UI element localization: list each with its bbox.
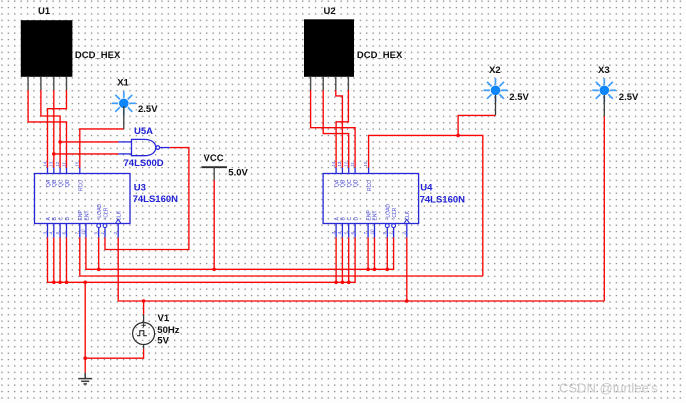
- wire U3 C drop: [59, 237, 61, 282]
- svg-text:11: 11: [61, 162, 66, 167]
- display U2 pin stubs: [311, 77, 349, 90]
- U5A input stub A: [118, 141, 131, 143]
- wire U2 pin3 to U4 QB: [336, 90, 343, 168]
- svg-text:CSDN @turtlee's: CSDN @turtlee's: [559, 381, 658, 396]
- wire U2 pin2 to U4 QC: [323, 90, 349, 168]
- wire lamp X2 to RCO net: [458, 115, 495, 135]
- wire U3 ~LOAD drop to VCC net: [98, 237, 100, 269]
- junction U3 ~LOAD on VCC net: [97, 268, 101, 272]
- wire U4 CLK drop: [406, 237, 408, 301]
- U4 top pin stubs: [336, 168, 369, 174]
- svg-text:X1: X1: [117, 77, 129, 88]
- wire NAND input B from QB column: [54, 153, 119, 155]
- lamp X1: [112, 91, 136, 115]
- wire ground lead red: [84, 358, 86, 373]
- svg-text:X3: X3: [598, 65, 610, 76]
- svg-text:50Hz: 50Hz: [157, 325, 179, 336]
- U3 ~LOAD bubble: [97, 224, 101, 228]
- wire U4 C drop: [348, 237, 350, 282]
- svg-text:13: 13: [337, 161, 342, 167]
- svg-text:13: 13: [49, 161, 54, 167]
- svg-text:12: 12: [55, 161, 60, 167]
- wire U1 pin3 to U3 QB: [53, 90, 55, 168]
- svg-text:74LS00D: 74LS00D: [124, 158, 164, 169]
- svg-text:2.5V: 2.5V: [509, 92, 529, 103]
- counter U4 box: [323, 174, 419, 224]
- op-amp U5A NAND gate body: [132, 139, 156, 155]
- ground symbol: [78, 373, 92, 384]
- junction U4 ENP on VCC net: [366, 268, 370, 272]
- svg-text:U2: U2: [324, 6, 336, 17]
- wire U3 D drop: [66, 237, 68, 282]
- junction U3 B on ground net: [52, 281, 56, 285]
- svg-text:C: C: [58, 217, 64, 221]
- junction U4 CLK on CLK net: [405, 299, 409, 303]
- wire U4 A drop: [335, 237, 337, 282]
- svg-text:ENT: ENT: [84, 211, 90, 221]
- display U1 pin stubs: [28, 77, 66, 90]
- svg-text:QC: QC: [347, 179, 353, 187]
- wire U4 ENT drop to VCC net: [374, 237, 376, 269]
- U3 CLK triangle: [115, 219, 121, 223]
- svg-text:QB: QB: [52, 179, 58, 187]
- svg-text:D: D: [353, 217, 359, 221]
- svg-text:2.5V: 2.5V: [138, 104, 158, 115]
- svg-text:15: 15: [363, 161, 368, 167]
- wire VCC net horizontal: [86, 237, 394, 269]
- svg-text:~CLR: ~CLR: [392, 207, 398, 220]
- svg-text:ENP: ENP: [78, 210, 84, 221]
- svg-text:2: 2: [402, 232, 407, 236]
- U4 CLK triangle: [404, 219, 410, 223]
- wire NAND output to U3 ~CLR: [105, 148, 189, 250]
- svg-text:ENT: ENT: [373, 211, 379, 221]
- svg-text:11: 11: [350, 162, 355, 167]
- wire ABCD ground net: [48, 237, 356, 282]
- svg-text:ENP: ENP: [366, 210, 372, 221]
- lamp X3: [592, 78, 616, 102]
- U3 ~CLR bubble: [103, 224, 107, 228]
- U5A output bubble: [156, 146, 160, 150]
- svg-text:CLK: CLK: [117, 210, 123, 220]
- svg-text:10: 10: [369, 229, 374, 235]
- svg-text:2: 2: [113, 232, 118, 236]
- junction U3 C on ground net: [58, 281, 62, 285]
- junction U4 C on ground net: [347, 281, 351, 285]
- wire lamp X2 lead (black): [495, 95, 497, 115]
- counter U3 box: [35, 174, 131, 224]
- svg-text:QC: QC: [58, 179, 64, 187]
- wire NAND input A from QC column: [60, 141, 118, 143]
- wire lamp X3 to CLK net: [603, 116, 605, 301]
- junction X2 on RCO2 net: [456, 134, 460, 138]
- wire VCC symbol drop: [213, 180, 215, 270]
- lamp X2: [484, 78, 508, 102]
- svg-text:DCD_HEX: DCD_HEX: [75, 50, 121, 61]
- junction ground drop on ABCD net: [83, 281, 87, 285]
- svg-text:U1: U1: [38, 6, 51, 17]
- svg-text:QA: QA: [46, 179, 52, 187]
- clock source V1: [133, 315, 155, 349]
- svg-text:5V: 5V: [157, 336, 169, 347]
- svg-text:74LS160N: 74LS160N: [133, 194, 179, 205]
- wire U4 ENP drop to VCC net: [367, 237, 369, 269]
- U4 bottom pin stubs: [336, 224, 407, 238]
- junction V1 plus on CLK net: [142, 299, 146, 303]
- wire V1 minus to ground: [85, 349, 143, 358]
- U4 ~LOAD bubble: [385, 224, 389, 228]
- svg-text:C: C: [347, 217, 353, 221]
- svg-text:10: 10: [81, 229, 86, 235]
- svg-text:15: 15: [75, 161, 80, 167]
- wire U3 RCO to lamp X1: [80, 129, 124, 168]
- svg-text:VCC: VCC: [204, 153, 224, 164]
- svg-text:U5A: U5A: [134, 126, 153, 137]
- svg-text:U3: U3: [134, 183, 146, 194]
- display U1 body: [21, 20, 73, 77]
- wire U2 pin1 to U4 QD: [311, 90, 356, 168]
- svg-text:RCO: RCO: [367, 180, 373, 191]
- wire U1 pin1 to U3 QD: [28, 90, 66, 168]
- svg-text:DCD_HEX: DCD_HEX: [357, 50, 403, 61]
- wire ENP net U3 to right drop: [80, 237, 483, 276]
- svg-text:~LOAD: ~LOAD: [386, 204, 392, 221]
- wire CLK net: [118, 237, 604, 301]
- wire lamp X3 lead (black): [603, 95, 605, 116]
- svg-text:14: 14: [331, 161, 336, 167]
- junction U4 A on ground net: [334, 281, 338, 285]
- svg-text:V1: V1: [158, 313, 170, 324]
- svg-text:12: 12: [344, 161, 349, 167]
- svg-text:14: 14: [42, 161, 47, 167]
- wire U4 B drop: [341, 237, 343, 282]
- svg-text:D: D: [65, 217, 71, 221]
- U4 ~CLR bubble: [392, 224, 396, 228]
- junction on NAND input B at QB: [52, 152, 56, 156]
- wire U2 pin4 to U4 QA: [336, 90, 348, 168]
- wire U1 pin4 to U3 QA: [48, 90, 67, 168]
- junction on NAND input A at QC: [58, 140, 62, 144]
- svg-text:~CLR: ~CLR: [103, 207, 109, 220]
- junction U4 B on ground net: [341, 281, 345, 285]
- svg-text:QD: QD: [353, 179, 359, 187]
- junction U3 D on ground net: [65, 281, 69, 285]
- svg-text:~LOAD: ~LOAD: [97, 204, 103, 221]
- U3 inside pin labels: [46, 179, 123, 220]
- junction VCC symbol on VCC net: [212, 268, 216, 272]
- U4 pin numbers: [331, 161, 407, 235]
- U3 bottom pin stubs: [48, 224, 119, 238]
- wire ground drop from ABCD net to V1 minus: [84, 282, 86, 358]
- svg-text:2.5V: 2.5V: [619, 92, 639, 103]
- wire V1 plus to CLK net: [143, 301, 145, 315]
- junction U4 ENT on VCC net: [373, 268, 377, 272]
- U4 inside pin labels: [334, 179, 411, 220]
- junction U4 ~LOAD on VCC net: [386, 268, 390, 272]
- svg-text:QB: QB: [341, 179, 347, 187]
- svg-text:QD: QD: [65, 179, 71, 187]
- U3 top pin stubs: [48, 168, 80, 174]
- svg-text:CLK: CLK: [405, 210, 411, 220]
- U5A input stub B: [118, 153, 131, 155]
- svg-text:X2: X2: [489, 65, 501, 76]
- svg-text:5.0V: 5.0V: [228, 168, 248, 179]
- wire U4 ~LOAD drop to VCC net: [386, 237, 388, 269]
- wire U4 RCO to lamp X2 and to right drop: [369, 135, 483, 276]
- svg-text:74LS160N: 74LS160N: [420, 194, 466, 205]
- svg-text:QA: QA: [334, 179, 340, 187]
- display U2 body: [304, 19, 354, 77]
- wire U1 pin2 to U3 QC: [41, 90, 60, 168]
- svg-text:RCO: RCO: [78, 180, 84, 191]
- VCC power symbol: [201, 167, 227, 180]
- U3 pin numbers: [42, 161, 118, 235]
- U5A output stub: [160, 147, 170, 149]
- wire U3 B drop: [53, 237, 55, 282]
- wire lamp X1 lead (black): [123, 106, 125, 129]
- svg-text:U4: U4: [420, 183, 433, 194]
- junction V1 minus on ground drop: [83, 356, 87, 360]
